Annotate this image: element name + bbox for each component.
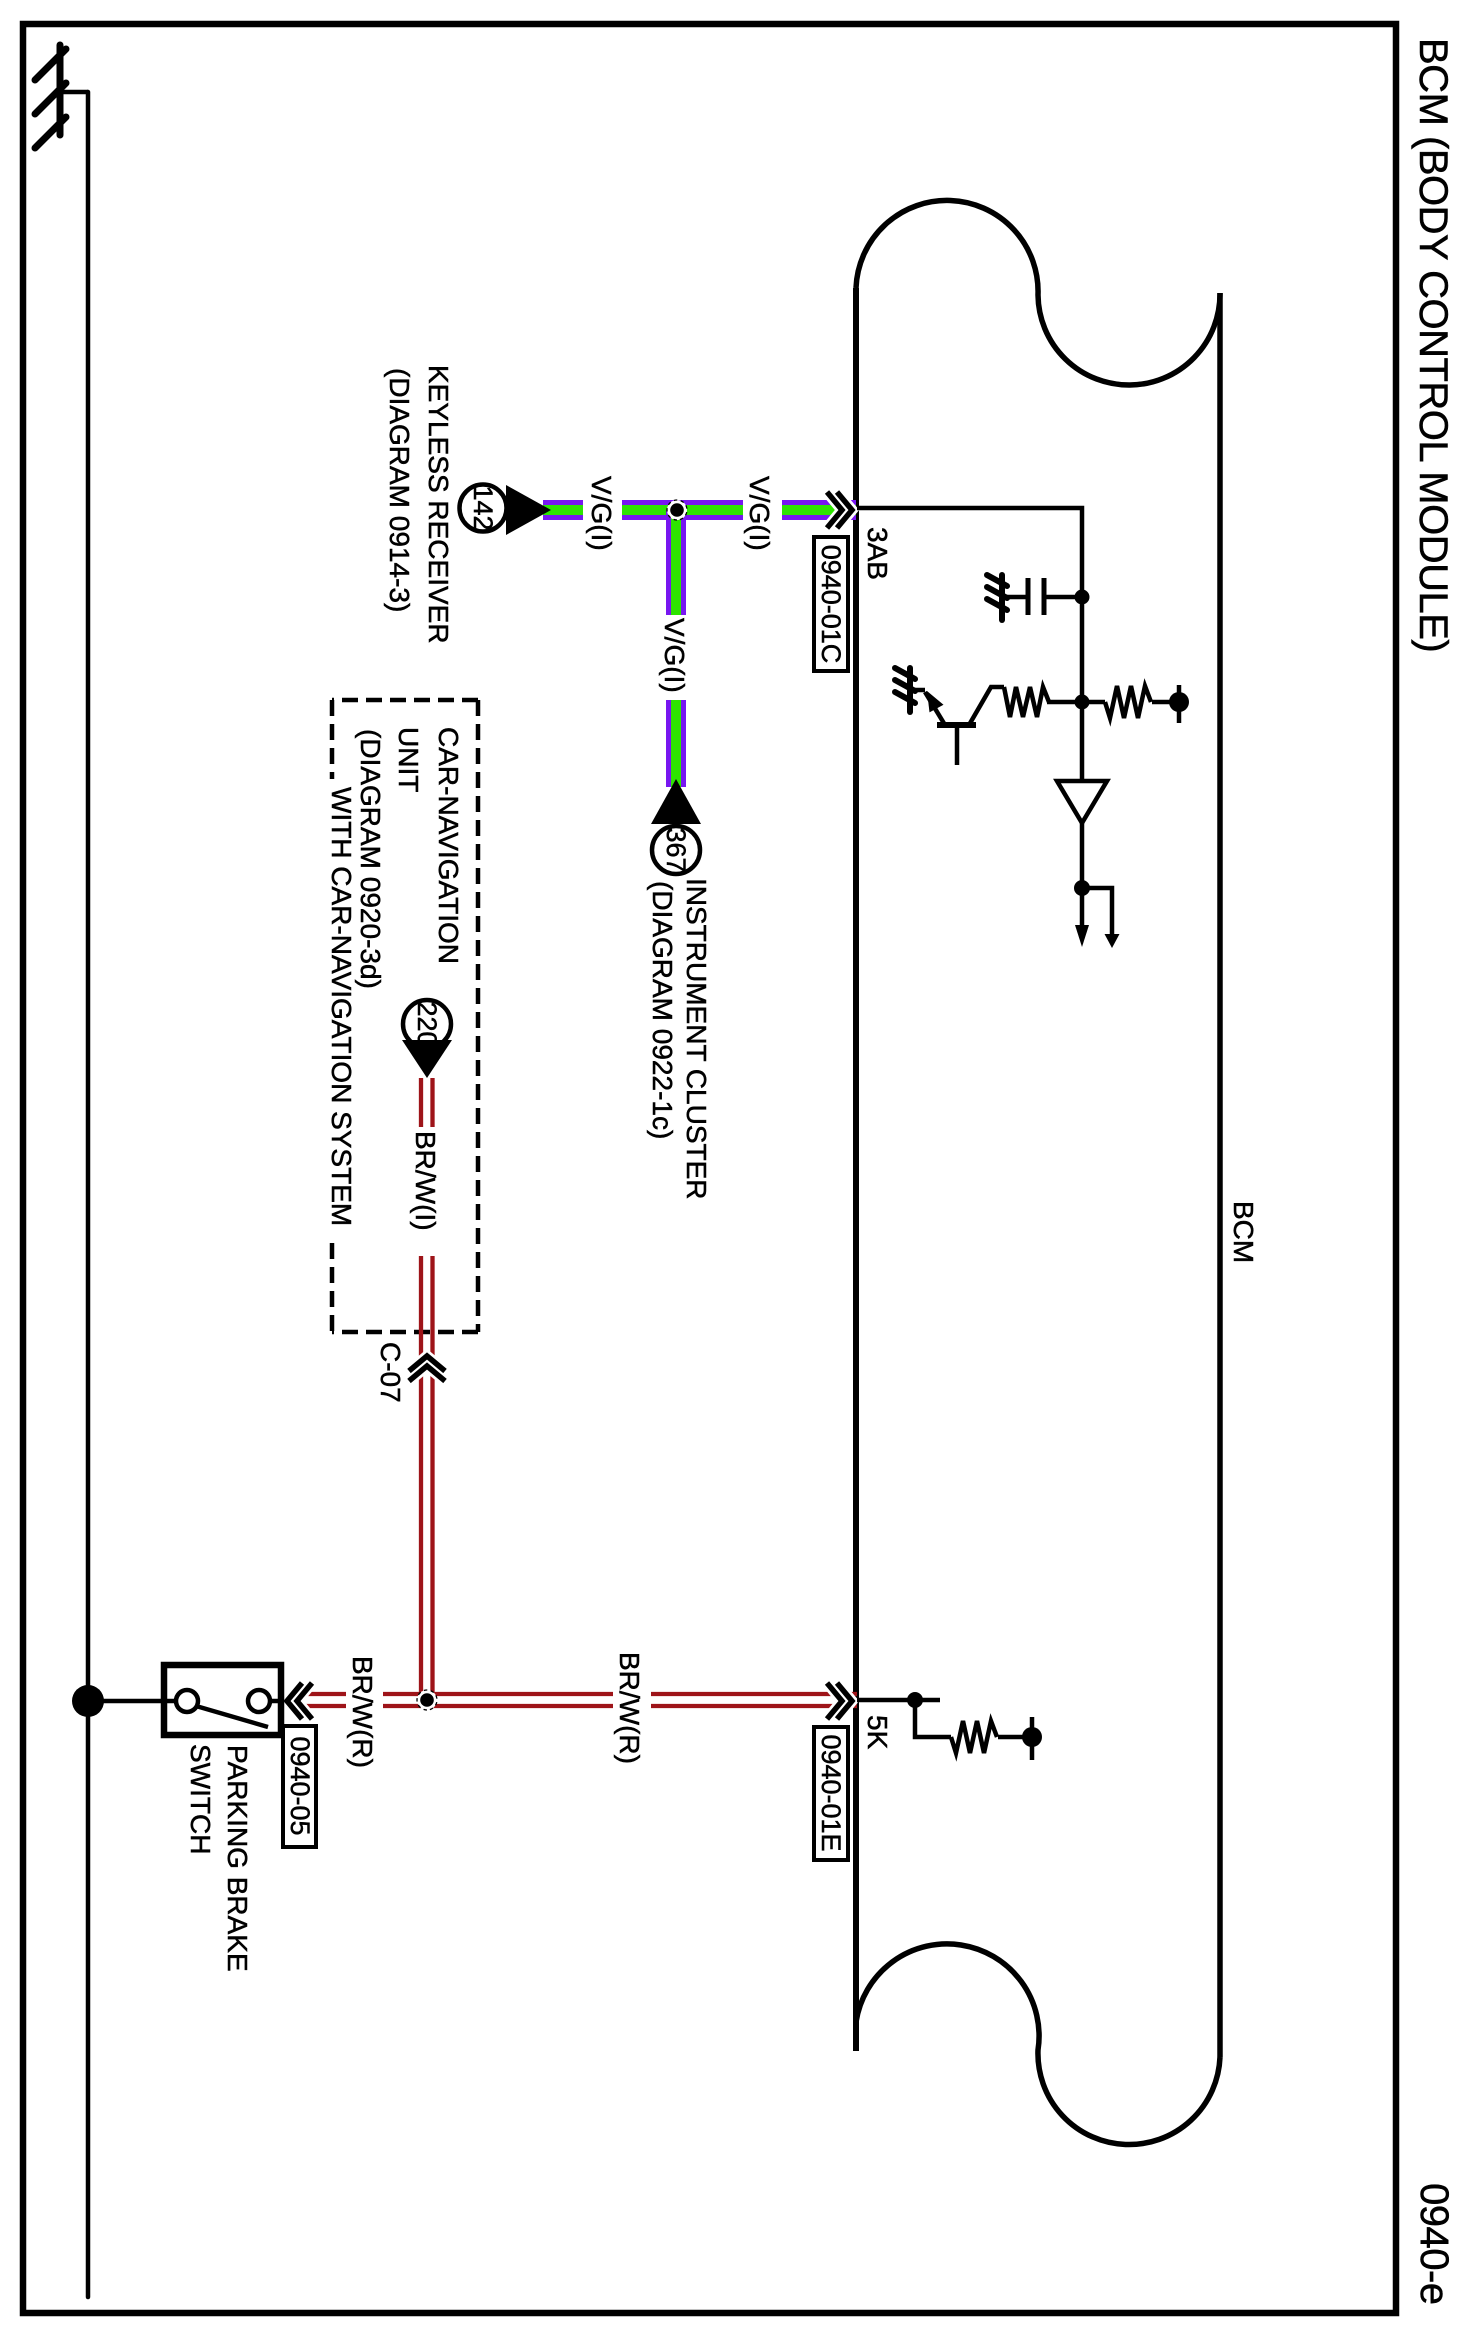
svg-text:5K: 5K xyxy=(862,1715,893,1750)
switch lever xyxy=(196,1706,268,1727)
svg-text:(DIAGRAM 0914-3): (DIAGRAM 0914-3) xyxy=(384,368,415,612)
resistor R2 xyxy=(1105,686,1151,718)
node rail-R1 junction xyxy=(1075,695,1090,710)
terminal upper xyxy=(248,1690,270,1712)
svg-text:BR/W(R): BR/W(R) xyxy=(614,1652,645,1764)
connector chevron C-07 xyxy=(409,1356,445,1381)
svg-text:INSTRUMENT CLUSTER: INSTRUMENT CLUSTER xyxy=(681,878,712,1200)
pin node with stub xyxy=(1169,685,1189,723)
connector circle 220 xyxy=(403,1000,451,1048)
wire output lower stub xyxy=(1080,888,1085,936)
ref box 0940-05 xyxy=(283,1726,316,1847)
svg-text:0940-01E: 0940-01E xyxy=(816,1734,846,1851)
wire capacitor branch xyxy=(1044,595,1082,600)
wire switch to ground bus xyxy=(88,1699,164,1704)
node tee junction dot xyxy=(417,1690,437,1710)
svg-text:CAR-NAVIGATION: CAR-NAVIGATION xyxy=(433,727,464,964)
arrow to instrument cluster xyxy=(651,779,701,824)
arrow output upper xyxy=(1105,934,1120,948)
wire junction to R2 xyxy=(1082,700,1105,705)
resistor R1 xyxy=(1004,687,1049,717)
wire ground bus xyxy=(86,92,91,2297)
wire R3 to pin xyxy=(998,1735,1032,1740)
wire BR/W vertical run xyxy=(305,1694,857,1706)
svg-text:0940-e: 0940-e xyxy=(1412,2183,1456,2305)
wire R2 to pin xyxy=(1152,700,1179,705)
node rail output junction xyxy=(1074,880,1090,896)
svg-text:WITH CAR-NAVIGATION SYSTEM: WITH CAR-NAVIGATION SYSTEM xyxy=(326,787,357,1226)
svg-text:0940-05: 0940-05 xyxy=(285,1736,315,1835)
arrow from car-navigation unit xyxy=(402,1040,452,1078)
svg-text:C-07: C-07 xyxy=(375,1342,406,1403)
ground G1 (chassis ground, bottom-left) xyxy=(35,45,66,148)
wire BCM entry rail xyxy=(857,508,1082,887)
wire 5K pin stub xyxy=(857,1698,940,1703)
dashed box car-navigation unit xyxy=(332,700,478,1332)
svg-text:PARKING BRAKE: PARKING BRAKE xyxy=(222,1745,253,1972)
svg-text:UNIT: UNIT xyxy=(393,727,424,792)
arrow to keyless receiver xyxy=(506,485,551,535)
svg-text:220: 220 xyxy=(412,1001,442,1046)
svg-text:BCM: BCM xyxy=(1228,1201,1259,1263)
svg-text:BCM (BODY CONTROL MODULE): BCM (BODY CONTROL MODULE) xyxy=(1411,38,1455,652)
wire R1 to transistor collector xyxy=(969,687,1004,725)
svg-text:BR/W(R): BR/W(R) xyxy=(347,1656,378,1768)
svg-text:SWITCH: SWITCH xyxy=(185,1744,216,1854)
wire output upper stub xyxy=(1082,888,1112,936)
transistor Q1 xyxy=(925,691,976,765)
wire ground link xyxy=(62,90,88,95)
wire junction to R1 xyxy=(1047,700,1082,705)
svg-text:(DIAGRAM 0922-1c): (DIAGRAM 0922-1c) xyxy=(647,881,678,1139)
connector circle 142 xyxy=(460,485,507,532)
wire V/G trunk (vertical from BCM pin 3AB) xyxy=(543,500,856,520)
buffer U1 xyxy=(1057,781,1107,823)
parking brake switch box xyxy=(164,1665,281,1735)
node bus junction dot xyxy=(72,1685,104,1717)
svg-text:142: 142 xyxy=(468,485,498,530)
connector circle 367 xyxy=(652,826,700,874)
pin node with stub xyxy=(1022,1717,1042,1760)
svg-text:3AB: 3AB xyxy=(862,527,893,580)
node 5K junction xyxy=(907,1692,923,1708)
BCM module box xyxy=(856,200,1220,2144)
svg-text:(DIAGRAM 0920-3d): (DIAGRAM 0920-3d) xyxy=(355,729,386,989)
resistor R3 xyxy=(951,1721,997,1753)
arrow output lower xyxy=(1075,925,1089,947)
connector chevron 5K xyxy=(827,1683,852,1719)
svg-text:BR/W(I): BR/W(I) xyxy=(410,1131,441,1231)
wire terminal stub lower xyxy=(164,1699,178,1704)
svg-text:V/G(I): V/G(I) xyxy=(744,476,775,551)
connector chevron 3AB xyxy=(827,492,852,528)
ref box 0940-01E xyxy=(814,1727,848,1860)
wire junction to R3 xyxy=(915,1700,951,1737)
svg-text:V/G(I): V/G(I) xyxy=(659,618,690,693)
svg-text:KEYLESS RECEIVER: KEYLESS RECEIVER xyxy=(423,365,454,644)
wire V/G branch (horizontal to instrument cluster) xyxy=(666,510,686,787)
ground G2 (capacitor) xyxy=(987,575,1007,620)
svg-text:0940-01C: 0940-01C xyxy=(816,545,846,664)
wire terminal stub upper xyxy=(268,1699,281,1704)
capacitor C1 xyxy=(1028,578,1044,615)
wire emitter to ground xyxy=(910,688,925,693)
connector chevron at parking brake switch xyxy=(287,1683,312,1719)
ground G3 (transistor) xyxy=(895,668,915,712)
wire BR/W horizontal run xyxy=(421,1078,433,1698)
node rail-capacitor junction xyxy=(1075,590,1090,605)
svg-text:367: 367 xyxy=(661,827,691,872)
wire capacitor to ground xyxy=(1002,595,1028,600)
junction node dot xyxy=(667,500,687,520)
ref box 0940-01C xyxy=(814,537,848,671)
svg-text:V/G(I): V/G(I) xyxy=(586,476,617,551)
terminal lower xyxy=(176,1690,198,1712)
